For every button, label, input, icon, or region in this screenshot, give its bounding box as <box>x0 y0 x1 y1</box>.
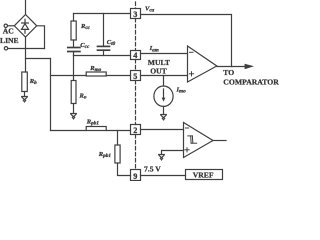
wire branch right at y=58.5 <box>26 58 51 60</box>
resistor Rcc <box>71 21 76 40</box>
svg-text:5: 5 <box>133 72 137 81</box>
wire U2 plus input from ground corner <box>162 151 184 155</box>
svg-text:2: 2 <box>133 126 137 135</box>
wire Rmo to pin 5 <box>106 75 130 77</box>
resistor Rmo <box>86 72 106 76</box>
wire Rcc to Ccc <box>73 40 75 47</box>
wire terminal to bridge left corner <box>8 25 15 27</box>
wire top rail to pin 3 <box>74 13 131 15</box>
pin box 3 <box>131 9 141 19</box>
current source Imo circle <box>154 86 173 106</box>
ground below current source <box>161 106 167 120</box>
wire bridge right corner over and down <box>37 26 45 49</box>
svg-text:Rcc: Rcc <box>80 23 91 31</box>
AC bottom terminal <box>4 47 7 50</box>
svg-text:Rpb1: Rpb1 <box>86 118 100 126</box>
wire U1 output <box>217 66 245 68</box>
svg-text:Rb: Rb <box>29 78 37 86</box>
svg-text:AC: AC <box>3 27 14 36</box>
wire pin 2 to hysteresis comparator minus input <box>141 129 184 131</box>
resistor Rpb1 <box>86 127 106 131</box>
svg-text:TO: TO <box>223 68 234 77</box>
wire long left riser down <box>50 59 52 131</box>
svg-text:OUT: OUT <box>150 66 166 75</box>
wire pin 9 to VREF block <box>141 175 186 177</box>
svg-text:LINE: LINE <box>0 36 19 45</box>
svg-text:Vca: Vca <box>145 5 155 13</box>
ground below Ro <box>71 104 77 119</box>
ground at U2 plus input <box>159 155 165 160</box>
wire bottom terminal across to riser <box>8 48 45 50</box>
wire junction down to Rpb2 <box>117 131 119 146</box>
wire Rmo rail from left riser <box>51 75 87 77</box>
pin box 9 <box>131 170 141 181</box>
plus sign U1 <box>189 72 193 76</box>
wire pin 4 to comparator minus input <box>141 53 188 55</box>
op-amp U2 with hysteresis <box>184 123 214 158</box>
svg-text:9: 9 <box>133 172 137 181</box>
pin box 5 <box>131 71 141 81</box>
wire: from bridge top corner up to image edge <box>25 0 27 15</box>
resistor Rpb2 <box>115 145 120 163</box>
svg-text:Ct0: Ct0 <box>107 39 116 47</box>
wire column joining pin4 rail to Rmo rail <box>73 56 75 81</box>
hysteresis symbol inside U2 <box>188 136 197 143</box>
wire pin 5 to comparator plus input <box>141 75 188 77</box>
wire Vcc rail from pin 3 right and down to output <box>141 15 232 67</box>
minus sign U1 <box>190 51 193 53</box>
arrowhead to comparator <box>245 64 254 69</box>
svg-text:COMPARATOR: COMPARATOR <box>223 78 279 87</box>
bridge rectifier diamond <box>14 15 36 38</box>
svg-text:Imo: Imo <box>176 86 187 94</box>
wire U2 output <box>213 140 226 142</box>
svg-text:7.5 V: 7.5 V <box>144 164 161 173</box>
pin box 2 <box>131 125 141 135</box>
AC top terminal <box>4 24 7 27</box>
svg-text:Rpb1: Rpb1 <box>98 151 112 159</box>
VREF block <box>186 170 223 180</box>
wire main input vertical from bridge bottom <box>25 37 27 72</box>
wire Ccc down to pin4 rail <box>73 52 75 56</box>
wire Rpb1 to pin 2 <box>106 130 130 132</box>
capacitor Ccc <box>68 48 80 52</box>
wire pin 4 rail <box>74 55 131 57</box>
svg-text:4: 4 <box>133 51 137 60</box>
svg-text:VREF: VREF <box>193 171 214 180</box>
svg-text:Ccc: Ccc <box>80 42 90 50</box>
ground below Rb <box>22 92 28 102</box>
IC boundary dashed line <box>135 2 137 170</box>
wire stem from plus rail down to current source <box>163 76 165 87</box>
svg-text:Iam: Iam <box>149 45 159 53</box>
diode inside bridge <box>22 19 29 33</box>
op-amp U1 comparator <box>188 46 217 82</box>
resistor Rb <box>22 72 28 92</box>
pin box 4 <box>131 51 141 60</box>
capacitor Ct0 <box>98 46 110 50</box>
svg-text:3: 3 <box>133 10 137 19</box>
svg-text:Rmo: Rmo <box>89 65 101 73</box>
wire from top rail down into Ct0 <box>103 14 105 46</box>
plus sign U2 <box>185 148 189 152</box>
wire from rail down into Rcc <box>73 14 75 22</box>
wire Rpb2 down and right to pin 9 <box>118 163 131 176</box>
svg-text:Ro: Ro <box>79 93 87 101</box>
wire Ct0 down to pin4 rail <box>103 51 105 56</box>
arrow inside current source <box>163 89 165 100</box>
resistor Ro <box>71 81 76 104</box>
minus sign U2 <box>185 127 188 129</box>
wire Rpb1 rail from left riser <box>51 130 87 132</box>
